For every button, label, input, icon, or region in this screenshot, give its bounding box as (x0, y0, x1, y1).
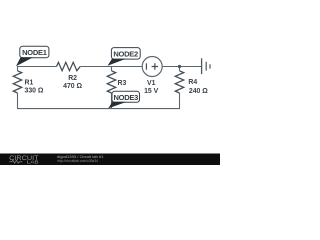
resistor R4 labels (188, 79, 208, 95)
svg-text:NODE1: NODE1 (22, 48, 47, 57)
resistor R2 zigzag body (57, 62, 81, 70)
svg-text:R1: R1 (25, 80, 34, 87)
svg-text:LAB: LAB (27, 159, 39, 165)
node label NODE2 bubble (108, 48, 141, 66)
svg-text:R4: R4 (188, 79, 197, 86)
svg-text:V1: V1 (147, 80, 156, 87)
wire: top wire from node A to R2 left (17, 66, 57, 68)
resistor R4 zigzag body (175, 71, 183, 93)
wire: R4 branch upper stub (179, 67, 181, 71)
ground symbol (rotated right) (202, 58, 210, 74)
wire: left vertical branch upper stub (17, 67, 19, 71)
svg-text:R2: R2 (68, 75, 77, 82)
svg-text:240 Ω: 240 Ω (189, 88, 208, 95)
node label NODE3 bubble (108, 91, 139, 108)
footer bar (0, 154, 220, 166)
wire: V1 right terminal to ground (162, 66, 201, 68)
svg-text:15 V: 15 V (144, 88, 159, 95)
voltage source V1 circle (142, 57, 162, 77)
svg-text:http://circuitlab.com/c35s34: http://circuitlab.com/c35s34 (57, 159, 98, 163)
voltage source V1 labels (144, 80, 159, 95)
wire: R3 branch upper stub (111, 67, 113, 71)
resistor R3 zigzag body (107, 71, 115, 93)
resistor R1 labels (25, 80, 44, 95)
wire: R3 branch lower stub (111, 93, 113, 109)
svg-text:R3: R3 (118, 80, 127, 87)
resistor R2 labels (63, 75, 82, 90)
wire: left vertical branch lower stub (17, 93, 19, 109)
V1 plus sign (152, 63, 159, 69)
svg-text:470 Ω: 470 Ω (63, 83, 82, 90)
V1 minus sign (rotated, vertical bar) (145, 63, 147, 69)
svg-text:NODE2: NODE2 (113, 50, 138, 59)
resistor R1 zigzag body (13, 71, 21, 93)
wire: bottom wire (17, 108, 180, 110)
node label NODE1 bubble (16, 46, 49, 66)
CircuitLab logo wordmark (9, 155, 39, 166)
wire: top wire from R2 right to V1 left terminal (80, 66, 142, 68)
wire: R4 branch lower stub (179, 93, 181, 109)
svg-text:NODE3: NODE3 (114, 93, 139, 102)
junction dot at V1/R4 node (178, 65, 181, 68)
svg-text:330 Ω: 330 Ω (25, 88, 44, 95)
